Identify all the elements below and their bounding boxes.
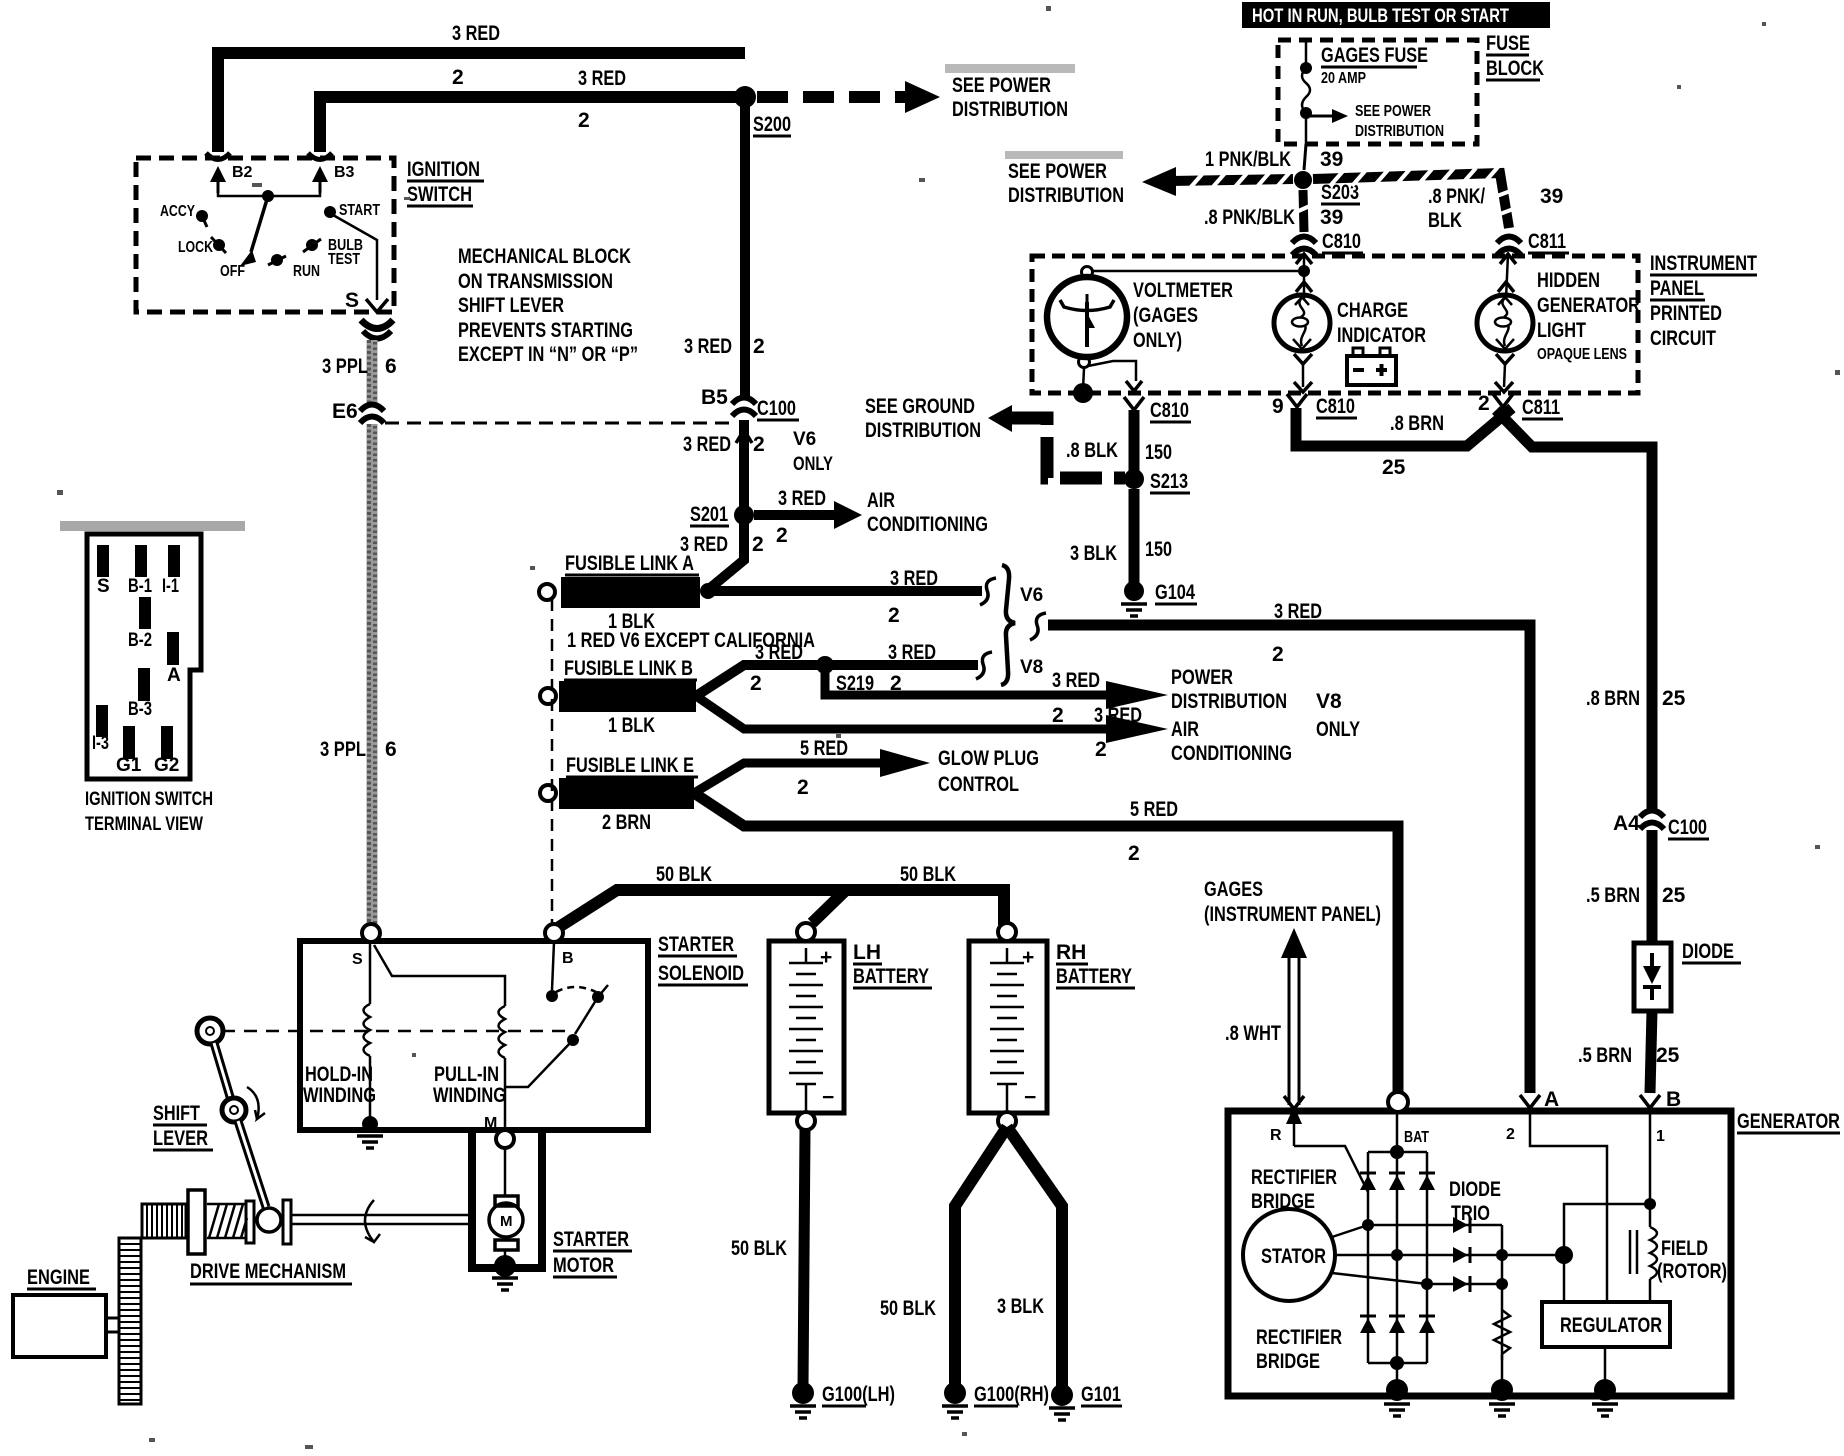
field junction [1502,1254,1558,1257]
svg-text:A: A [167,665,181,686]
svg-text:25: 25 [1382,456,1406,479]
wire dashed E6 to C100 [385,422,731,425]
svg-text:2: 2 [750,672,762,695]
svg-text:3 RED: 3 RED [684,335,732,358]
svg-text:.8 BRN: .8 BRN [1586,687,1640,710]
svg-text:C810: C810 [1322,230,1361,253]
svg-text:MECHANICAL BLOCK: MECHANICAL BLOCK [458,245,631,268]
solenoid switch contacts [552,942,554,990]
svg-text:3 RED: 3 RED [578,67,626,90]
terminal R [1284,1096,1304,1109]
wire .8 BRN 25 from C811 down right side [1496,410,1652,812]
svg-text:PRINTED: PRINTED [1650,302,1722,325]
svg-text:25: 25 [1662,884,1686,907]
svg-text:PREVENTS STARTING: PREVENTS STARTING [458,319,633,342]
svg-text:+: + [1022,946,1034,969]
terminal A [1520,1095,1540,1108]
svg-text:.8 BLK: .8 BLK [1066,439,1118,462]
svg-text:OPAQUE LENS: OPAQUE LENS [1537,346,1627,363]
ignition switch terminal view box [60,521,245,531]
svg-text:CONDITIONING: CONDITIONING [1171,742,1292,765]
wire A terminal to regulator [1530,1108,1607,1302]
starter motor symbol [504,1148,507,1196]
svg-text:CONDITIONING: CONDITIONING [867,513,988,536]
svg-text:LEVER: LEVER [153,1127,208,1150]
svg-text:2: 2 [797,776,809,799]
starter motor ground [494,1255,516,1277]
svg-text:OFF: OFF [220,263,245,280]
svg-text:GENERATOR: GENERATOR [1537,294,1640,317]
connector C810 (pin) below panel [1124,397,1144,410]
svg-text:BATTERY: BATTERY [853,965,929,988]
svg-text:ACCY: ACCY [160,203,195,220]
svg-text:I-3: I-3 [92,733,109,754]
wire S201 down to fusible link A [709,515,744,589]
svg-text:TEST: TEST [328,251,360,268]
svg-text:50 BLK: 50 BLK [900,863,956,886]
wire link B lower branch to AIR CONDITIONING arrow [696,696,1106,729]
svg-text:C100: C100 [757,397,796,420]
svg-text:INSTRUMENT: INSTRUMENT [1650,252,1757,275]
svg-text:BLK: BLK [1428,209,1462,232]
terminal B2 arrow [206,153,230,160]
svg-text:RH: RH [1056,941,1086,964]
contact RUN [271,254,283,266]
svg-text:2: 2 [1272,643,1284,666]
svg-text:(INSTRUMENT PANEL): (INSTRUMENT PANEL) [1204,903,1381,926]
svg-text:HOLD-IN: HOLD-IN [305,1063,373,1086]
terminal blade I-1 [168,545,180,577]
wire .5 BRN to diode [1647,830,1658,943]
svg-text:3 RED: 3 RED [1274,600,1322,623]
terminal M [496,1130,514,1148]
node S213 [1124,469,1144,489]
resistor [1494,1310,1510,1354]
wire voltmeter top to charge indicator node [1092,270,1304,273]
svg-text:BRIDGE: BRIDGE [1251,1190,1315,1213]
svg-text:S201: S201 [690,503,728,526]
svg-text:IGNITION SWITCH: IGNITION SWITCH [85,789,213,810]
svg-text:R: R [1270,1127,1282,1144]
svg-text:6: 6 [385,738,397,761]
terminal blade B-2 [139,597,151,629]
battery icon [1347,356,1396,385]
node S200 [734,86,756,108]
svg-text:V8: V8 [1316,690,1342,713]
svg-text:.8 WHT: .8 WHT [1225,1022,1281,1045]
terminal blade B-1 [135,545,147,577]
svg-text:150: 150 [1145,538,1172,561]
field (rotor) coil [1649,1204,1652,1227]
svg-text:LIGHT: LIGHT [1537,319,1586,342]
wire C100 down to S201 [739,420,749,507]
svg-text:2: 2 [776,524,788,547]
contact START [324,206,336,218]
svg-text:2: 2 [1095,738,1107,761]
node S203 [1294,171,1312,189]
svg-text:2: 2 [752,533,764,556]
wire START to S terminal [333,215,377,300]
svg-text:G100(LH): G100(LH) [822,1383,895,1406]
ground G104 [1124,581,1144,601]
svg-text:G104: G104 [1155,581,1195,604]
svg-text:V8: V8 [1020,657,1043,678]
wire 9 C810 panel bottom exit [1287,394,1307,407]
wire 5 RED link E to generator BAT [694,793,1398,1094]
connector C100 (B5) [732,398,756,417]
svg-text:DIODE: DIODE [1682,940,1734,963]
svg-text:AIR: AIR [1171,718,1199,741]
svg-text:FUSE: FUSE [1486,32,1530,55]
svg-text:DISTRIBUTION: DISTRIBUTION [1171,690,1287,713]
svg-text:G1: G1 [116,755,142,776]
instrument panel dashed box [1032,256,1638,393]
svg-text:SEE POWER: SEE POWER [1355,103,1431,120]
terminal blade A [167,632,179,665]
connector C810 (top) [1292,237,1316,256]
svg-text:SOLENOID: SOLENOID [658,962,744,985]
svg-text:BATTERY: BATTERY [1056,965,1132,988]
wire C810 into panel [1303,254,1306,299]
svg-text:PANEL: PANEL [1650,277,1704,300]
wire .8 BRN from C810-9 to C811 crossover [1296,408,1512,446]
rectifier bridge columns [1368,1152,1427,1363]
mech dashed line [222,1030,566,1033]
svg-text:B: B [562,950,574,967]
svg-text:2: 2 [753,433,765,456]
svg-text:ONLY: ONLY [1316,718,1360,741]
svg-text:SHIFT LEVER: SHIFT LEVER [458,294,564,317]
wire fuse block down to S203 [1304,144,1306,170]
ignition switch dashed box [136,158,394,312]
BAT wire into bridge [1396,1112,1399,1152]
svg-text:B-2: B-2 [128,630,152,651]
svg-text:B-3: B-3 [128,699,152,720]
svg-text:RECTIFIER: RECTIFIER [1256,1326,1342,1349]
svg-text:GLOW PLUG: GLOW PLUG [938,747,1039,770]
svg-text:2: 2 [888,604,900,627]
ignition switch internals [218,178,320,196]
svg-text:1 PNK/BLK: 1 PNK/BLK [1205,148,1291,171]
svg-text:DIODE: DIODE [1449,1178,1501,1201]
svg-text:C811: C811 [1522,396,1560,419]
svg-text:S: S [345,289,359,312]
wire 3 RED from ignition B3 up and right to S200 [320,97,745,152]
svg-text:STARTER: STARTER [553,1228,629,1251]
wire hatched left to SEE POWER DISTRIBUTION arrow [1170,179,1293,181]
wire 3 RED long to generator A [1030,613,1046,640]
svg-text:DISTRIBUTION: DISTRIBUTION [1355,123,1444,140]
wire LH battery to G100(LH) [803,1130,805,1388]
voltmeter [1047,277,1127,357]
svg-text:.8 BRN: .8 BRN [1390,412,1444,435]
contact ACCY [196,210,208,222]
svg-text:9: 9 [1272,395,1284,418]
svg-text:3 RED: 3 RED [683,433,731,456]
svg-text:S213: S213 [1150,470,1188,493]
wire 2 C811 panel bottom exit [1493,394,1513,407]
wire R to stator phase [1294,1146,1368,1192]
wire dashed to SEE POWER DISTRIBUTION [757,91,905,103]
svg-text:HOT IN RUN, BULB TEST OR START: HOT IN RUN, BULB TEST OR START [1252,6,1509,27]
svg-text:SEE POWER: SEE POWER [952,74,1051,97]
hidden generator light bulb [1506,254,1508,299]
svg-text:3 RED: 3 RED [1094,704,1142,727]
svg-text:GENERATOR: GENERATOR [1737,1110,1840,1133]
svg-text:BLOCK: BLOCK [1486,57,1544,80]
svg-text:PULL-IN: PULL-IN [434,1063,499,1086]
generator box [1228,1111,1731,1396]
arrow fuse to see power distribution [1306,115,1332,118]
svg-text:3 RED: 3 RED [452,22,500,45]
svg-text:39: 39 [1540,185,1563,208]
ground G100(LH) [792,1382,814,1404]
svg-text:RECTIFIER: RECTIFIER [1251,1166,1337,1189]
pull-in winding [374,945,505,1130]
svg-text:3 RED: 3 RED [890,567,938,590]
svg-text:50 BLK: 50 BLK [731,1237,787,1260]
svg-text:ONLY): ONLY) [1133,329,1182,352]
drive mechanism flanges and cylinder [188,1190,205,1254]
svg-text:1: 1 [1656,1128,1665,1145]
regulator ground [1604,1347,1607,1388]
svg-text:I-1: I-1 [162,576,179,597]
svg-text:AIR: AIR [867,489,895,512]
svg-text:6: 6 [385,355,397,378]
charge indicator bulb [1274,295,1330,351]
wire hatched right from S203 to C811 [1313,173,1509,228]
terminal blade G1 [123,726,135,759]
svg-text:2: 2 [578,109,590,132]
svg-text:2: 2 [1128,842,1140,865]
svg-text:CONTROL: CONTROL [938,773,1019,796]
svg-text:SEE GROUND: SEE GROUND [865,395,975,418]
fuse block dashed box [1278,40,1477,144]
wire 50 BLK solenoid B to batteries [559,890,1004,927]
svg-text:A: A [1544,1088,1559,1111]
svg-text:5 RED: 5 RED [1130,798,1178,821]
svg-text:INDICATOR: INDICATOR [1337,324,1426,347]
RH battery [969,941,1047,1113]
svg-text:M: M [484,1115,497,1132]
wire C810 pin down to S213 [1129,410,1140,472]
svg-text:25: 25 [1656,1044,1680,1067]
svg-text:CIRCUIT: CIRCUIT [1650,327,1716,350]
wire 3 BLK down to G104 [1129,489,1140,584]
svg-text:LH: LH [853,941,881,964]
svg-text:LOCK: LOCK [178,239,213,256]
stator [1243,1209,1335,1301]
svg-text:GAGES: GAGES [1204,878,1263,901]
terminal B3 arrow [308,153,332,160]
svg-text:FUSIBLE LINK B: FUSIBLE LINK B [564,657,693,680]
svg-text:39: 39 [1320,148,1343,171]
svg-text:−: − [1024,1086,1036,1109]
svg-text:SHIFT: SHIFT [153,1102,200,1125]
wire voltmeter bottom to ground dot [1083,368,1084,390]
contact BULB TEST [306,239,318,251]
svg-text:V6: V6 [793,429,816,450]
shift lever [197,1018,223,1044]
svg-text:(ROTOR): (ROTOR) [1657,1260,1727,1283]
svg-text:G101: G101 [1081,1383,1121,1406]
arrow .8 WHT to gages [1281,928,1307,958]
LH battery [769,941,844,1113]
wire dashed battery node [551,599,554,925]
svg-text:2: 2 [452,66,464,89]
brace V6/V8 [1001,565,1015,685]
wire 3 PPL gray to solenoid S [367,340,378,404]
svg-text:S: S [352,951,363,968]
svg-text:3 PPL: 3 PPL [320,738,366,761]
svg-text:1 BLK: 1 BLK [608,714,655,737]
svg-text:REGULATOR: REGULATOR [1560,1314,1662,1337]
regulator [1542,1302,1670,1347]
svg-text:B5: B5 [701,386,728,409]
svg-text:VOLTMETER: VOLTMETER [1133,279,1233,302]
svg-text:ONLY: ONLY [793,454,833,475]
stator phase wires [1332,1225,1368,1237]
svg-text:DISTRIBUTION: DISTRIBUTION [952,98,1068,121]
svg-text:.5 BRN: .5 BRN [1586,884,1640,907]
wire B terminal down to field [1649,1108,1652,1204]
svg-text:ON TRANSMISSION: ON TRANSMISSION [458,270,613,293]
svg-text:V6: V6 [1020,585,1043,606]
svg-text:3 RED: 3 RED [755,641,803,664]
svg-text:E6: E6 [332,400,358,423]
svg-text:3 RED: 3 RED [888,641,936,664]
svg-text:C811: C811 [1528,230,1566,253]
svg-text:FUSIBLE LINK A: FUSIBLE LINK A [565,552,694,575]
terminal blade G2 [161,726,173,759]
wire 3 RED from ignition B2 up and right to S200 [218,53,745,152]
svg-text:MOTOR: MOTOR [553,1254,614,1277]
svg-text:25: 25 [1662,687,1686,710]
terminal S [362,924,380,942]
wire S219 down to POWER DISTRIBUTION arrow [825,670,1106,695]
terminal blade B-3 [138,668,150,701]
svg-text:20 AMP: 20 AMP [1321,70,1366,87]
svg-text:2: 2 [1052,704,1064,727]
svg-text:CHARGE: CHARGE [1337,299,1408,322]
node S201 [734,505,754,525]
svg-text:5 RED: 5 RED [800,737,848,760]
bottom bus to ground [1390,1356,1404,1370]
svg-text:3 PPL: 3 PPL [322,355,368,378]
svg-text:+: + [820,946,832,969]
arrow link E to GLOW PLUG CONTROL [694,763,880,793]
svg-text:3 RED: 3 RED [1052,669,1100,692]
svg-text:2 BRN: 2 BRN [602,811,651,834]
terminal blade S [97,545,109,577]
arrow S201 to AIR CONDITIONING [754,510,834,520]
ground G100(RH) [944,1382,966,1404]
rectifier diodes bottom row [1360,1318,1435,1333]
svg-text:2: 2 [1506,1126,1515,1143]
svg-text:POWER: POWER [1171,666,1233,689]
svg-text:3 BLK: 3 BLK [997,1295,1044,1318]
svg-text:SWITCH: SWITCH [407,183,472,206]
svg-text:RUN: RUN [293,263,320,280]
svg-text:B: B [1666,1088,1681,1111]
svg-text:BAT: BAT [1404,1129,1429,1146]
label SEE POWER DISTRIBUTION (top) [945,64,1075,73]
diode [1634,943,1671,1011]
contact LOCK [213,239,225,251]
svg-text:DISTRIBUTION: DISTRIBUTION [1008,184,1124,207]
svg-text:39: 39 [1320,206,1343,229]
svg-text:B3: B3 [334,164,355,181]
gear rack [119,1238,141,1404]
wire link A to V6 brace [700,583,716,599]
rotation arc on shaft [365,1200,380,1242]
terminal BAT [1388,1092,1408,1112]
svg-text:WINDING: WINDING [433,1084,506,1107]
rectifier diodes top row [1360,1175,1435,1190]
node S219 [816,656,834,674]
svg-text:SEE POWER: SEE POWER [1008,160,1107,183]
starter motor box [472,1132,542,1268]
svg-text:START: START [339,202,380,219]
R terminal arrow inside [1293,1108,1296,1146]
terminal B [1640,1095,1660,1108]
svg-text:50 BLK: 50 BLK [880,1297,936,1320]
svg-text:.8 PNK/BLK: .8 PNK/BLK [1204,206,1295,229]
svg-text:S: S [97,576,110,597]
svg-text:FIELD: FIELD [1661,1237,1708,1260]
svg-text:C810: C810 [1316,395,1355,418]
wire S200 down to C100 [740,97,750,396]
svg-text:.5 BRN: .5 BRN [1578,1044,1632,1067]
hold-in winding [369,942,372,1120]
wire .5 BRN diode to generator B [1650,1011,1652,1093]
ground G101 [1051,1384,1073,1406]
svg-text:C810: C810 [1150,399,1189,422]
svg-text:A4: A4 [1613,812,1640,835]
wire S203 short down to C810 [1303,190,1304,232]
svg-text:−: − [822,1086,834,1109]
svg-text:DRIVE MECHANISM: DRIVE MECHANISM [190,1260,346,1283]
svg-text:2: 2 [753,335,765,358]
svg-text:BRIDGE: BRIDGE [1256,1350,1320,1373]
svg-text:ENGINE: ENGINE [27,1266,90,1289]
svg-text:B-1: B-1 [128,576,152,597]
hold-in ground [362,1116,378,1132]
wire voltmeter to C810 pin [1088,361,1136,381]
svg-text:HIDDEN: HIDDEN [1537,269,1600,292]
wire 3 PPL lower [367,424,378,926]
svg-text:(GAGES: (GAGES [1133,304,1198,327]
connector C100 (A4) [1640,811,1664,830]
svg-text:IGNITION: IGNITION [407,158,480,181]
svg-text:2: 2 [1478,392,1490,415]
svg-text:C100: C100 [1668,816,1707,839]
svg-text:50 BLK: 50 BLK [656,863,712,886]
connector C811 (top) [1497,237,1521,256]
connector E6 [360,405,384,424]
svg-text:3 RED: 3 RED [778,487,826,510]
svg-text:WINDING: WINDING [303,1084,376,1107]
splined section [142,1204,186,1238]
drive shaft [291,1214,473,1217]
svg-text:150: 150 [1145,441,1172,464]
wire link B upper branch to S219 and V8 brace [696,665,978,696]
svg-text:S200: S200 [753,113,791,136]
terminal B [545,924,563,942]
svg-text:STATOR: STATOR [1261,1245,1326,1268]
terminal blade I-3 [96,705,108,737]
svg-text:TERMINAL VIEW: TERMINAL VIEW [85,814,203,835]
